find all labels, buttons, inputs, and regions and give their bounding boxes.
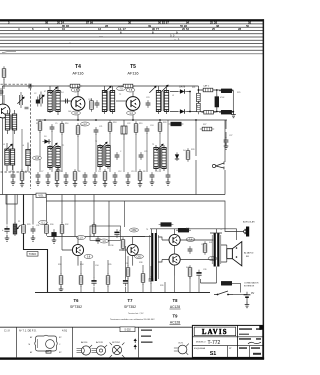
IF can 5 arrow [100,142,107,149]
oscillator coil winding [5,149,9,165]
pinout circle AC128 [92,346,106,355]
value pill near IF2 [117,87,126,91]
ground IF can 4 [56,167,61,173]
resistor R30 [45,222,49,236]
svg-text:87 99: 87 99 [86,20,93,24]
driver transformer top leads [152,229,157,233]
right column row divider 1 [238,336,263,338]
capacitor C10 with ground [83,172,88,180]
capacitor C13 with ground [126,172,131,180]
earphone jack symbol [212,162,224,170]
value pill (0,8) [71,88,80,92]
svg-text:R4: R4 [25,171,27,173]
svg-text:L5: L5 [172,95,174,97]
dial frequency numbers row 3 [18,27,242,31]
right col row3 text a [239,347,247,349]
capacitor C11 with ground [93,172,98,180]
right col row1 text a [239,328,252,330]
svg-text:R18: R18 [113,122,116,124]
IF can 4 winding b [56,147,60,168]
svg-text:SFT352: SFT352 [124,305,136,309]
svg-text:12: 12 [98,27,102,31]
dial scale line 1 [0,23,264,25]
value pill audio in [39,221,48,225]
transistor T5 [126,97,140,111]
gang 2 arrow [37,95,44,102]
value pill T6 emitter [84,255,93,259]
resistor R21 [197,91,201,105]
svg-text:R8: R8 [143,171,145,173]
svg-text:Tension bat. 7,5V: Tension bat. 7,5V [128,312,144,315]
capacitor C23 [146,100,151,108]
right col row3 text b [251,347,260,349]
driver transformer core bars [151,233,157,281]
svg-text:LAVIS: LAVIS [202,329,228,336]
IF can 1 leads [50,86,58,115]
svg-text:S-202: S-202 [124,329,131,332]
osc coil leads [27,143,29,172]
resistor on rail R13 [68,84,82,88]
gang 1 arrow [17,97,24,104]
volume feed wire thick [24,195,48,293]
resistor R24 [201,110,215,114]
wire OT bottom down [201,267,217,284]
legend strip top border [0,326,263,328]
resistor R3 [38,119,42,133]
dial scale line 4 [0,33,264,35]
right vertical wire to jack [224,120,226,195]
svg-text:Nº 7.1. DE F.O.: Nº 7.1. DE F.O. [19,328,37,332]
IF can 4 core [53,147,54,167]
resistor R1 top left [2,66,6,80]
resistor R36 [121,237,125,251]
wire trafo sec to T8 base [158,237,169,240]
svg-text:AC128: AC128 [96,341,103,344]
title divider under modelo [192,345,237,347]
dial top black bar [0,19,264,21]
resistor R42 [188,265,192,279]
right col row2 text b [256,338,261,340]
svg-text:C11: C11 [98,171,101,173]
left edge vertical wire [1,86,3,195]
svg-text:R41: R41 [209,242,212,244]
svg-text:T-772: T-772 [208,340,221,346]
svg-text:9, 0: 9, 0 [170,34,175,38]
capacitor C9 with ground [64,172,69,180]
svg-text:470K: 470K [220,97,225,99]
legend cell4 text line 3 [141,342,153,343]
transistor T8 [169,234,180,245]
capacitor on rail [26,84,34,89]
svg-text:C13: C13 [131,171,134,173]
T6 wires [62,237,78,266]
IF can 1 winding b [56,91,60,112]
resistor R5 with ground [55,169,59,183]
svg-text:C38: C38 [201,244,204,246]
resistor R26 dark horizontal [169,122,184,126]
svg-text:C36: C36 [110,245,113,247]
svg-text:OC71: OC71 [178,343,184,345]
dial scale line 9 [0,49,264,51]
T5 collector emitter wires [132,86,134,120]
IF can 3 winding b [164,91,168,112]
dial frequency numbers row 1 [8,20,252,24]
dial scale line 8 [0,46,264,48]
resistor R29 [22,222,26,236]
svg-text:R14: R14 [60,92,63,94]
resistor R35 [106,273,110,287]
svg-text:EXTERIOR: EXTERIOR [244,286,255,288]
svg-text:C25: C25 [144,151,147,153]
IF can 6 arrow [156,144,163,151]
svg-text:L3: L3 [3,144,5,146]
IF can 6 winding a [154,148,158,169]
IF can 3 core [162,91,163,111]
speaker wires [221,245,227,262]
svg-text:R42: R42 [186,267,189,269]
output transformer top lead [210,229,222,234]
svg-text:OA79: OA79 [179,86,186,89]
IF can 6 leads [156,145,164,171]
capacitor C12 with ground [113,172,118,180]
svg-text:T1: T1 [62,145,64,147]
svg-text:AF116: AF116 [127,71,138,76]
resistor R34 [79,273,83,287]
capacitor C34 [91,278,96,287]
IF can 3 winding a [156,91,160,112]
svg-text:C24: C24 [150,125,153,127]
legend divider 1 [16,327,18,357]
dashed gang link vertical [29,84,31,189]
title block outer frame [192,325,262,357]
resistor R40 dark horizontal [176,228,191,232]
node dots detector [189,89,234,112]
value pill T5 lower [127,111,136,115]
svg-text:AF116: AF116 [81,341,88,344]
resistor R24b dark [219,110,234,114]
svg-text:T8: T8 [173,298,179,303]
IF can 3 arrow a [149,86,156,93]
IF can 5 winding b [106,146,110,167]
wire T3 collector [3,79,5,105]
IF can 2 winding b [110,91,114,112]
IF can 1 winding a [48,91,52,112]
capacitor C25 [139,152,144,160]
svg-text:9V: 9V [251,291,254,295]
ground R33 [59,286,64,292]
legend divider 3 [138,327,140,357]
resistor on rail dark [159,223,174,227]
resistor R22 [201,88,215,92]
capacitor C20 [95,100,100,108]
svg-text:R6: R6 [78,171,80,173]
mid rail wire [36,119,227,121]
resistor R8 with ground [138,169,142,183]
capacitor C38 [188,246,193,254]
driver transformer side lines [150,235,159,279]
right page border [263,19,265,359]
electrolytic C30 [2,226,10,235]
bottom page bar [0,357,264,359]
capacitor C6 with ground [11,172,16,180]
svg-text:C.I.V.: C.I.V. [4,328,11,332]
legend arrow stems [134,341,136,349]
IF can 3 arrow b [161,85,168,92]
audio feed verticals [7,195,109,247]
dashed gang link horizontal [1,83,29,85]
battery B1 [244,291,255,302]
svg-text:36: 36 [128,20,132,24]
svg-text:R20: R20 [163,122,166,124]
capacitor C31 [31,226,36,234]
resistor R6 with ground [73,169,77,183]
ground C31 [31,235,36,241]
svg-text:R21: R21 [192,87,195,89]
svg-text:L4: L4 [22,145,24,147]
ground battery [245,302,250,308]
svg-text:4.91: 4.91 [62,328,68,332]
right col row3 divider [249,346,251,358]
value pill T9 right [208,257,217,261]
resistor R16 [60,121,64,135]
output transformer core bars [214,233,220,267]
capacitor C22 boxed [121,120,127,140]
diode D4 [175,152,179,161]
capacitor C8 with ground [46,172,51,180]
output transformer side lines [212,235,221,264]
resistor R20 [158,120,162,134]
ground C30 [5,235,10,241]
title sub divider vertical [227,346,229,358]
dial scale tick marks [70,36,175,44]
capacitor C21 [94,127,99,135]
IF can 2 arrow [104,86,111,93]
svg-text:TONO: TONO [29,252,36,256]
pinout circle SFT352 [110,343,125,358]
IF can 4 arrow [50,143,57,150]
dial scale line 6 [0,39,264,41]
ferrite antenna coil winding 1 [5,114,9,130]
svg-text:T4: T4 [146,229,148,231]
right col row1 text c [239,334,249,335]
right col row2 text a [239,338,251,340]
resistor R37 [126,265,130,279]
ground detector right [231,112,236,118]
audio upper rail right [150,228,237,230]
value pill T5 base [126,88,135,92]
svg-text:08: 08 [45,20,49,24]
gang 1 trimmer cap [25,107,29,109]
svg-text:C21: C21 [99,126,102,128]
resistor R15 [90,98,94,112]
dark component R31 [51,229,56,240]
lower bus wire [0,194,225,196]
dial frequency numbers row 2 [62,24,250,28]
svg-text:R16: R16 [65,123,68,125]
svg-text:C35: C35 [125,263,128,265]
audio bus stubs [61,246,199,293]
capacitor C16 with ground [166,172,171,180]
vertical wire x196 [195,120,197,195]
value pill T8 [186,238,195,242]
svg-text:AURICULAR: AURICULAR [243,221,255,224]
jack tip circle [244,230,247,233]
svg-text:R40: R40 [186,228,189,230]
svg-text:C7: C7 [41,171,43,173]
right col row1 text b [256,328,261,330]
dial scale line 10 [0,53,264,55]
T4 collector wire [77,86,79,120]
dial scale line 7 [0,43,264,45]
electrolytic C40 [244,227,249,237]
tiny component value labels [3,87,240,287]
svg-text:C23: C23 [146,97,149,99]
ground under C27 [224,143,229,149]
svg-text:CONMUTADOR: CONMUTADOR [244,282,259,285]
IF can 2 leads [105,86,113,114]
right col row2 signature [248,342,261,344]
svg-text:S1: S1 [210,351,217,357]
legend arrow marks [134,338,137,347]
resistor R19 [134,121,138,135]
legend cell4 text line 1 [141,330,152,331]
svg-text:Tensiones medidas con voltimet: Tensiones medidas con voltimetro 20.000 … [110,318,155,321]
svg-text:T3: T3 [152,144,154,146]
svg-text:C20: C20 [88,99,91,101]
svg-text:MODELO: MODELO [196,341,206,343]
svg-text:C31: C31 [36,225,39,227]
stage bias vertical wires [13,120,168,172]
transistor T6 [72,244,83,255]
svg-text:R30: R30 [50,224,53,226]
dial scale line 3 [0,30,264,32]
svg-text:C2: C2 [34,93,36,95]
IF can 5 leads [100,144,108,170]
svg-text:R3: R3 [36,123,38,125]
antenna coil top leads [8,110,15,134]
mid rail node dots [44,119,197,121]
svg-text:T2: T2 [95,141,97,143]
svg-text:R17: R17 [81,125,84,127]
oscillator coil leads [7,143,13,171]
IF can 4 leads and ground [50,145,58,170]
transistor T7 [127,244,138,255]
value pill above T6 [77,236,86,240]
resistor R4 with ground [20,169,24,183]
svg-text:R27: R27 [203,124,206,126]
dial scale line 2 [0,26,264,28]
vertical wire to T7 base [123,201,125,246]
resistor R33 [59,273,63,287]
resistor R41 [203,241,207,255]
svg-text:CB2: CB2 [137,256,142,259]
svg-text:38: 38 [216,24,220,28]
dial scale line 5 [0,36,264,38]
svg-text:T5: T5 [220,229,222,231]
value pill mid coupling [130,228,139,232]
svg-text:10: 10 [62,27,66,31]
wire T7 collector to trafo [133,236,151,238]
resistor R7 with ground [103,169,107,183]
legend divider 2 [72,327,74,357]
svg-text:D3: D3 [44,136,46,138]
svg-text:CAF 2: CAF 2 [203,85,210,88]
resistor R14 [36,97,40,107]
resistor R9 dark vertical [215,94,219,109]
svg-text:T5: T5 [130,64,136,70]
svg-text:R32: R32 [65,224,68,226]
IF can 4 winding a [48,147,52,168]
dial row8 left pointer [2,51,16,52]
svg-text:T6: T6 [74,298,80,303]
wire T4 base [60,100,71,102]
speaker dots [236,247,238,258]
svg-text:R5: R5 [60,171,62,173]
IF can 2 winding a [102,91,106,112]
svg-text:T7: T7 [128,298,134,303]
wire trafo sec to T9 base [158,260,169,263]
title block inner LAVIS frame [194,327,236,336]
svg-text:28: 28 [105,24,109,28]
svg-text:ESQUEMA: ESQUEMA [194,347,205,350]
transistor T9 [169,254,180,265]
capacitor C1 left [0,88,3,96]
capacitor C7 with ground [36,172,41,180]
svg-text:AC128: AC128 [170,321,180,325]
svg-text:C6: C6 [10,171,12,173]
resistor on rail R13b [121,84,135,88]
power switch [214,291,233,295]
wire T8 collector to OT [175,229,214,260]
resistor R32 [60,222,64,236]
svg-text:VOL: VOL [38,194,44,198]
capacitor C5 [50,124,55,132]
svg-text:T4: T4 [75,64,81,70]
oscillator coil arrow [5,144,12,151]
svg-text:R19: R19 [139,123,142,125]
value pill R17 [81,122,90,126]
IF can 5 core [103,146,104,166]
wire switch to battery [233,294,247,296]
resistor R28 [186,148,190,162]
resistor R43 dark [221,281,231,285]
speaker terminal box [227,249,233,259]
switch node dots [217,294,229,296]
svg-text:50 83 97: 50 83 97 [158,20,169,24]
title divider under LAVIS [192,336,237,338]
capacitor C24 [145,126,150,134]
svg-text:R28: R28 [191,149,194,151]
svg-text:C39: C39 [203,269,206,271]
oscillator coil winding b [10,149,14,165]
resistor R32b [92,222,96,236]
dial frequency numbers row 4 [120,30,178,34]
right col row3 smudge [253,353,261,355]
resistor R38 [141,271,145,285]
diode D3 [42,139,51,143]
resistor R22b dark [219,89,234,93]
capacitor C37 [149,276,154,284]
IF can 6 winding b [162,148,166,169]
speaker cone [232,242,241,266]
pinout circle AF116 [77,346,91,355]
title block corner square [259,325,263,329]
converter transistor T3 (cut at edge) [0,104,10,118]
capacitor C39 [196,270,201,279]
svg-text:C15: C15 [35,157,40,160]
right column row divider 2 [238,345,263,347]
capacitor C27 [224,137,229,145]
